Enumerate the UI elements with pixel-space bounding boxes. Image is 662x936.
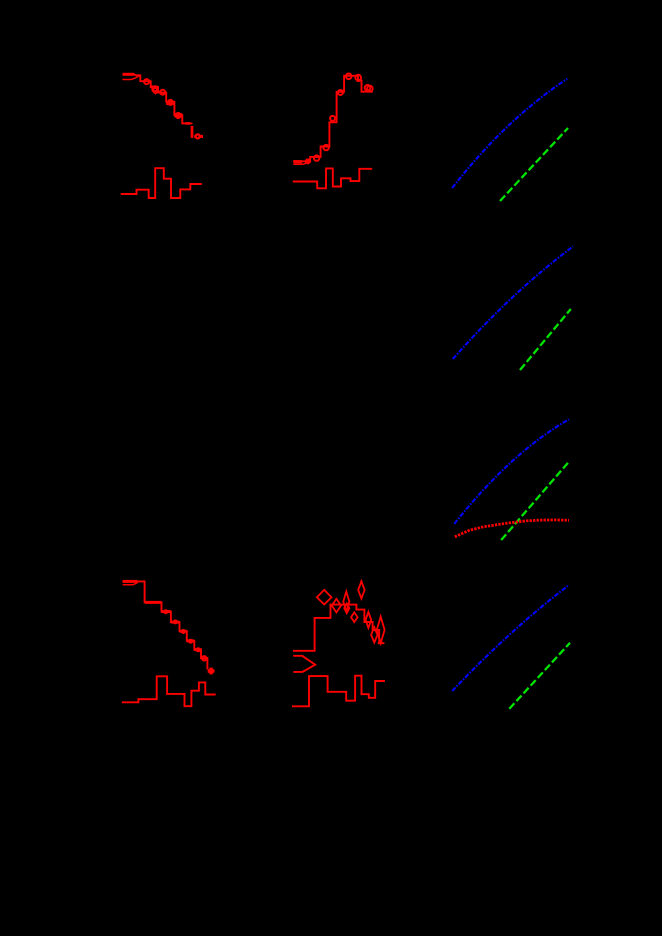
panel(1,1) secondary model line [122, 76, 139, 80]
panel(1,1) residual histogram [121, 168, 202, 198]
panel(4,3) blue dash-dot curve [452, 586, 568, 691]
panel(4,1) thick error segments [123, 581, 201, 649]
panel(4,1) bottom-left: red step model curve [122, 581, 207, 669]
panel(3,3) blue dash-dot curve [454, 419, 569, 524]
panel(4,3) green dashed line [509, 643, 570, 709]
panel(1,1) top-left: red step model curve [122, 74, 192, 123]
panel(1,1) thick error segments [123, 74, 192, 138]
panel(2,3) green dashed line [520, 309, 571, 370]
panel(1,3) green dashed line [500, 128, 568, 201]
panel(4,2) diamond markers [317, 580, 385, 643]
panel(1,1) data circles [144, 79, 203, 139]
panel(3,3) green dashed line [501, 461, 569, 540]
panel(3,3) red dotted curve [455, 520, 569, 537]
panel(4,1) secondary model line [123, 582, 138, 585]
panel(4,1) residual histogram [122, 676, 216, 706]
panel(1,2) residual histogram [293, 168, 372, 188]
panel(1,3) blue dash-dot curve [452, 79, 567, 188]
panel(4,2) bottom-middle: red step model curve [293, 605, 384, 651]
panel(2,3) blue dash-dot curve [453, 247, 573, 360]
panel(4,1) data markers [164, 610, 215, 675]
panel(1,2) top-middle: red rising step curve [293, 76, 373, 162]
panel(1,2) data circles [306, 74, 373, 164]
panel(1,2) secondary model line [293, 162, 309, 165]
panel(4,2) residual histogram [292, 676, 385, 707]
panel(1,2) thick start segment [293, 160, 302, 163]
panel(4,2) lower-limit chevron [293, 656, 315, 672]
